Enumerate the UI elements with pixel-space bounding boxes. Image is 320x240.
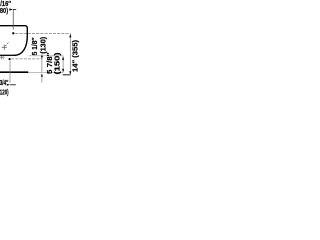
lower datum line under dimension x70 xyxy=(63,74,71,76)
arrow bottom-left tail xyxy=(10,84,16,86)
arrow 130 up xyxy=(41,56,43,59)
dimension line 130 (x42) xyxy=(41,54,43,73)
svg-text:3/4″: 3/4″ xyxy=(0,78,9,87)
arrow 150 up xyxy=(62,57,64,60)
fixture underside line xyxy=(0,54,14,56)
vertical extension line top (x13) xyxy=(12,10,14,30)
upper supply node dot xyxy=(12,32,14,34)
arrow 150 down xyxy=(62,69,64,72)
drain centerline cross xyxy=(2,42,9,50)
arrow 130 down xyxy=(41,73,43,76)
lower drain node dot xyxy=(9,58,11,60)
floor extension line (thin) xyxy=(29,71,64,73)
svg-text:(150): (150) xyxy=(55,53,62,75)
svg-text:120): 120) xyxy=(0,88,9,97)
fixture outline: rim top and front face curve xyxy=(0,26,27,56)
svg-text:5 7/8″: 5 7/8″ xyxy=(47,52,54,74)
lower dashed centerline xyxy=(11,58,41,60)
svg-text:14″ (355): 14″ (355) xyxy=(72,40,79,72)
dimension line 355 (x70.3) xyxy=(69,34,71,75)
arrow top-left pointing right xyxy=(9,8,13,10)
upper dashed centerline xyxy=(15,32,70,34)
arrow bottom-left pointing right xyxy=(7,84,10,86)
arrow 130 lower tail xyxy=(41,76,43,82)
dimension line 150 (x63) xyxy=(62,56,64,72)
svg-text:(130): (130) xyxy=(40,37,47,54)
fixing marks under fixture xyxy=(0,56,5,59)
vertical extension line bottom (x10) xyxy=(9,61,11,83)
arrow top-left tail xyxy=(13,9,16,11)
arrow 355 up xyxy=(69,34,71,38)
svg-text:80): 80) xyxy=(0,6,8,15)
svg-text:5 1/8″: 5 1/8″ xyxy=(32,37,39,56)
underside extension line xyxy=(29,55,64,57)
arrow 355 down xyxy=(69,71,71,75)
floor line xyxy=(0,71,28,73)
